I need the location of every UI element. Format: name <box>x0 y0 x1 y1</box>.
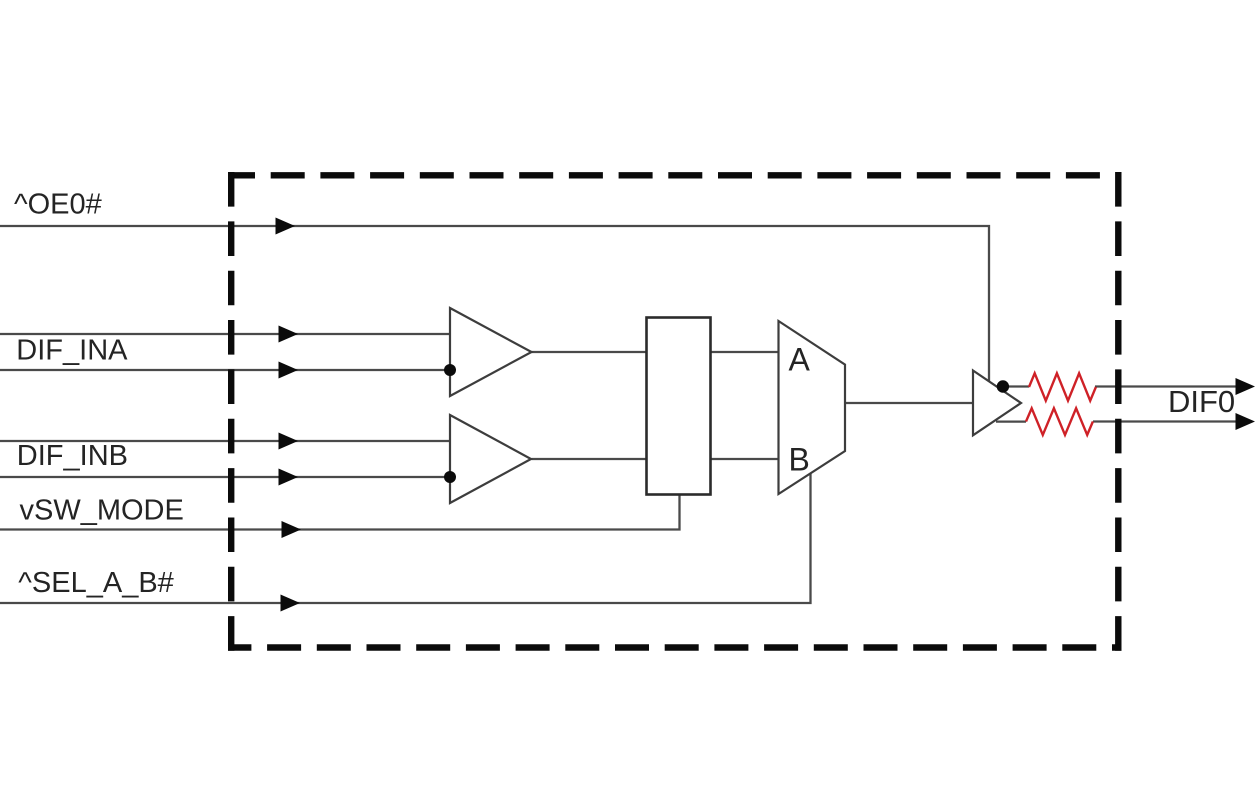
wire mux output to output buffer <box>845 402 973 404</box>
wire DIF0 true output to right edge <box>1095 385 1238 387</box>
resistor R1 (series resistor, true output, red) <box>1029 373 1096 400</box>
arrowhead on DIF_INB+ <box>279 433 299 450</box>
junction dot on DIF_INA- at buffer U1 <box>444 364 456 376</box>
wire vSW_MODE into bottom of control block <box>0 494 680 530</box>
svg-text:B: B <box>789 442 810 478</box>
arrowhead on DIF_INA+ <box>279 326 299 343</box>
svg-text:DIF_INB: DIF_INB <box>17 440 128 472</box>
arrowhead on DIF0 true output <box>1236 378 1256 395</box>
mux (A/B selector trapezoid) <box>779 321 846 494</box>
wire DIF_INB+ <box>0 440 450 442</box>
wire buffer2 output to mux input B <box>532 458 779 460</box>
wire DIF_INA- <box>0 369 450 371</box>
op-amp U3 (output buffer triangle) <box>973 371 1021 436</box>
svg-text:DIF_INA: DIF_INA <box>16 335 128 367</box>
wire DIF_INA+ <box>0 333 450 335</box>
dashed block boundary bottom <box>228 644 1122 650</box>
arrowhead on ^OE0# <box>276 218 296 235</box>
wire output buffer top tap to resistor <box>1003 385 1029 387</box>
resistor R2 (series resistor, complement output, red) <box>1026 408 1093 435</box>
svg-text:^SEL_A_B#: ^SEL_A_B# <box>18 567 174 599</box>
arrowhead on DIF_INA- <box>279 362 299 379</box>
svg-text:DIF0: DIF0 <box>1168 384 1235 419</box>
junction dot on DIF_INB- at buffer U2 <box>444 471 456 483</box>
arrowhead on DIF0 complement output <box>1236 413 1256 430</box>
svg-text:vSW_MODE: vSW_MODE <box>20 495 184 527</box>
wire ^OE0# from left edge into box, across top, down to output buffer enable <box>0 226 989 382</box>
arrowhead on vSW_MODE <box>282 521 302 538</box>
svg-text:^OE0#: ^OE0# <box>14 189 102 221</box>
wire buffer1 output to mux input A <box>532 351 779 353</box>
wire ^SEL_A_B# into bottom edge of mux <box>0 472 811 603</box>
arrowhead on ^SEL_A_B# <box>281 595 301 612</box>
junction dot on output buffer enable node <box>997 380 1009 392</box>
dashed block boundary top <box>228 172 1122 178</box>
svg-text:A: A <box>789 342 811 378</box>
buffer U1 (DIF_INA input buffer) <box>450 308 532 396</box>
dashed block boundary left <box>228 172 234 651</box>
wire DIF_INB- <box>0 476 450 478</box>
buffer U2 (DIF_INB input buffer) <box>450 415 531 503</box>
arrowhead on DIF_INB- <box>279 469 299 486</box>
wire output buffer bottom tap to resistor <box>996 420 1026 422</box>
control block (switch-mode logic rectangle) <box>647 318 711 495</box>
dashed block boundary right <box>1115 172 1121 651</box>
wire DIF0 complement output to right edge <box>1093 420 1238 422</box>
